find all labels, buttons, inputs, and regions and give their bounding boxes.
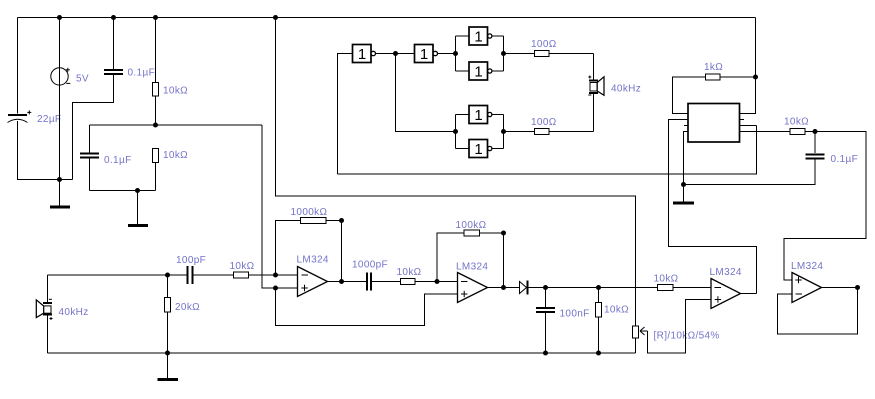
- svg-text:1000kΩ: 1000kΩ: [291, 207, 328, 218]
- svg-text:1: 1: [474, 28, 482, 45]
- capacitor C7 100nF: [536, 288, 555, 354]
- svg-text:LM324: LM324: [710, 267, 742, 278]
- ground under divider: [128, 191, 148, 226]
- wire feedback A down to output: [341, 221, 343, 282]
- transducer LS2 40kHz receiver: [36, 275, 52, 353]
- wire feedback B down to output: [503, 233, 505, 288]
- wire reference distribution to op-amp B plus: [276, 288, 458, 326]
- wire op-amp B output to diode: [488, 287, 520, 289]
- resistor R9 10k to op-amp A: [234, 272, 298, 278]
- svg-text:10kΩ: 10kΩ: [230, 261, 255, 272]
- svg-text:100Ω: 100Ω: [531, 39, 557, 50]
- node junction top rail at 5V: [57, 15, 62, 20]
- ground under 20k: [158, 353, 179, 380]
- voltage source V1 5V: [51, 18, 71, 180]
- resistor R14 10k to op-amp C: [658, 285, 712, 291]
- wire divider bottom rail: [90, 190, 156, 192]
- resistor R6 1k: [706, 74, 721, 80]
- wire feedback B up: [437, 233, 464, 282]
- svg-text:40kHz: 40kHz: [59, 307, 89, 318]
- wire upper pair input split: [455, 36, 457, 71]
- svg-text:1: 1: [474, 63, 482, 80]
- capacitor C1 22uF polarized: [8, 110, 32, 122]
- wire op-amp A output: [328, 281, 367, 283]
- node junction feedback B corner: [501, 231, 506, 236]
- ground under oscillator: [673, 185, 694, 204]
- capacitor C2 0.1uF: [104, 18, 123, 75]
- potentiometer RV1 body: [633, 326, 639, 353]
- pin R3 wire to feedback rail: [740, 125, 757, 127]
- svg-text:1: 1: [474, 107, 482, 124]
- svg-text:20kΩ: 20kΩ: [175, 302, 200, 313]
- node junction op-amp B output: [501, 285, 506, 290]
- node junction ground mini-rail: [57, 177, 62, 182]
- resistor R10 1000k feedback: [301, 218, 327, 224]
- svg-text:100Ω: 100Ω: [531, 117, 557, 128]
- resistor R13 10k detector load: [596, 288, 602, 354]
- resistor R7 10k oscillator output: [790, 129, 805, 135]
- svg-text:1: 1: [474, 141, 482, 158]
- node junction op-amp D output: [855, 285, 860, 290]
- wire lower pair input split: [455, 115, 457, 149]
- svg-text:1: 1: [358, 46, 366, 63]
- inverter U6: [456, 140, 504, 158]
- inverter U1: [353, 45, 396, 63]
- wire non-inverting node to op-amp A: [276, 287, 298, 289]
- svg-text:10kΩ: 10kΩ: [163, 86, 188, 97]
- node junction RC output: [813, 129, 818, 134]
- op-amp U8 LM324 B: [458, 273, 488, 303]
- svg-text:0.1µF: 0.1µF: [104, 155, 132, 166]
- svg-text:LM324: LM324: [456, 262, 488, 273]
- svg-text:1000pF: 1000pF: [352, 260, 388, 271]
- resistor R5 100 ohm lower: [504, 129, 594, 135]
- capacitor C5 100pF: [188, 266, 234, 284]
- node junction R13 bottom rail: [596, 351, 601, 356]
- svg-text:1kΩ: 1kΩ: [704, 62, 723, 73]
- op-amp U7 LM324 A: [298, 267, 328, 297]
- svg-text:100pF: 100pF: [176, 255, 206, 266]
- wire feedback B right: [480, 232, 504, 234]
- wire from U1 node down to lower pair row: [396, 54, 456, 132]
- node junction top rail at R2: [153, 15, 158, 20]
- svg-text:10kΩ: 10kΩ: [784, 117, 809, 128]
- wire upper pair output join: [503, 36, 505, 71]
- wire detector node rail: [546, 287, 658, 289]
- wire +5V power drop to potentiometer: [276, 18, 636, 327]
- node junction detector at R13: [596, 285, 601, 290]
- wire bottom ground rail: [48, 352, 636, 354]
- potentiometer RV1 wiper arrow: [640, 327, 648, 335]
- op-amp U10 LM324 D buffer: [792, 273, 822, 303]
- node junction op-amp A inverting input: [273, 273, 278, 278]
- svg-text:100nF: 100nF: [560, 309, 590, 320]
- resistor R2 10k upper divider: [153, 18, 159, 126]
- svg-text:0.1µF: 0.1µF: [128, 68, 156, 79]
- resistor R12 100k feedback: [464, 230, 480, 236]
- pin R2 stub: [740, 119, 745, 121]
- node junction lower pair output: [501, 129, 506, 134]
- wire step from C2 bottom down to ground mini-rail: [73, 75, 114, 180]
- node junction op-amp A output: [339, 279, 344, 284]
- capacitor C6 1000pF: [367, 273, 401, 291]
- inverter U3: [456, 27, 504, 45]
- wire 1k right to top rail drop: [720, 76, 756, 78]
- pin L4 wire to ground: [684, 132, 689, 185]
- wire inverter input feedback vertical: [338, 54, 353, 175]
- oscillator box X1: [688, 104, 740, 143]
- wire oscillator feedback rail to inverter input: [338, 126, 757, 175]
- diode D1: [520, 281, 546, 295]
- pin R4 wire to output RC: [740, 131, 791, 133]
- svg-text:5V: 5V: [76, 74, 89, 85]
- ground under 5V source: [50, 180, 70, 208]
- wire feedback A right: [326, 220, 342, 222]
- svg-text:22µF: 22µF: [37, 114, 61, 125]
- wire receiver top rail: [48, 274, 188, 276]
- svg-text:10kΩ: 10kΩ: [163, 150, 188, 161]
- node divider bottom junction: [135, 188, 140, 193]
- resistor R4 100 ohm upper: [504, 51, 594, 57]
- resistor R8 20k: [165, 275, 171, 353]
- op-amp U9 LM324 C comparator: [711, 279, 741, 309]
- wire left drop to 22uF: [17, 18, 19, 114]
- node junction after U1: [393, 51, 398, 56]
- node junction detector at C7: [543, 285, 548, 290]
- inverter U5: [456, 106, 504, 124]
- wire half-supply reference from divider: [262, 125, 276, 288]
- pin L2 wire to comparator output: [669, 120, 757, 294]
- svg-text:0.1µF: 0.1µF: [831, 154, 859, 165]
- wire feedback A up: [276, 221, 301, 276]
- wire +5V drop to pin R1: [740, 18, 756, 114]
- node junction feedback A corner: [339, 218, 344, 223]
- svg-text:[R]/10kΩ/54%: [R]/10kΩ/54%: [654, 331, 720, 342]
- svg-text:10kΩ: 10kΩ: [654, 274, 679, 285]
- svg-text:1: 1: [420, 46, 428, 63]
- svg-text:40kHz: 40kHz: [611, 84, 641, 95]
- node junction 20k bottom rail: [165, 351, 170, 356]
- transducer LS1 40kHz transmitter: [588, 54, 604, 132]
- svg-text:LM324: LM324: [297, 255, 329, 266]
- pin L1 wire to 1k loop: [673, 77, 706, 114]
- wire lower pair output join: [503, 115, 505, 149]
- wire op-amp C output to oscillator enable: [741, 293, 757, 295]
- capacitor C3 0.1uF lower: [80, 125, 99, 191]
- wire 22uF bottom to ground mini-rail: [18, 121, 73, 180]
- node junction upper pair output: [501, 51, 506, 56]
- svg-text:10kΩ: 10kΩ: [397, 267, 422, 278]
- node junction 1k / +5V drop: [753, 75, 758, 80]
- wire op-amp D feedback loop: [778, 288, 858, 335]
- node junction oscillator ground: [681, 182, 686, 187]
- node junction lower pair input: [453, 129, 458, 134]
- resistor R11 10k to op-amp B: [401, 279, 458, 285]
- pin L3 stub: [684, 125, 688, 127]
- svg-text:100kΩ: 100kΩ: [456, 220, 487, 231]
- node junction op-amp A non-inverting input: [273, 286, 278, 291]
- node junction op-amp B inverting input: [435, 279, 440, 284]
- node junction receiver / 20k top: [165, 273, 170, 278]
- node junction upper pair input: [453, 51, 458, 56]
- wire divider mid rail: [90, 124, 263, 126]
- node junction C7 bottom rail: [543, 351, 548, 356]
- wire +5V top rail: [18, 17, 756, 19]
- wire op-amp D output: [822, 287, 858, 289]
- wire RC node to right edge and down to buffer input: [784, 132, 866, 281]
- svg-text:10kΩ: 10kΩ: [604, 305, 629, 316]
- node junction top rail at C2: [111, 15, 116, 20]
- wire wiper to op-amp C plus: [648, 300, 712, 354]
- node divider mid junction: [153, 123, 158, 128]
- svg-text:LM324: LM324: [791, 261, 823, 272]
- capacitor C4 0.1uF oscillator filter: [684, 132, 825, 185]
- node junction top rail at power drop: [273, 15, 278, 20]
- inverter U2: [396, 45, 456, 63]
- inverter U4: [456, 62, 504, 80]
- resistor R3 10k lower divider: [153, 149, 159, 191]
